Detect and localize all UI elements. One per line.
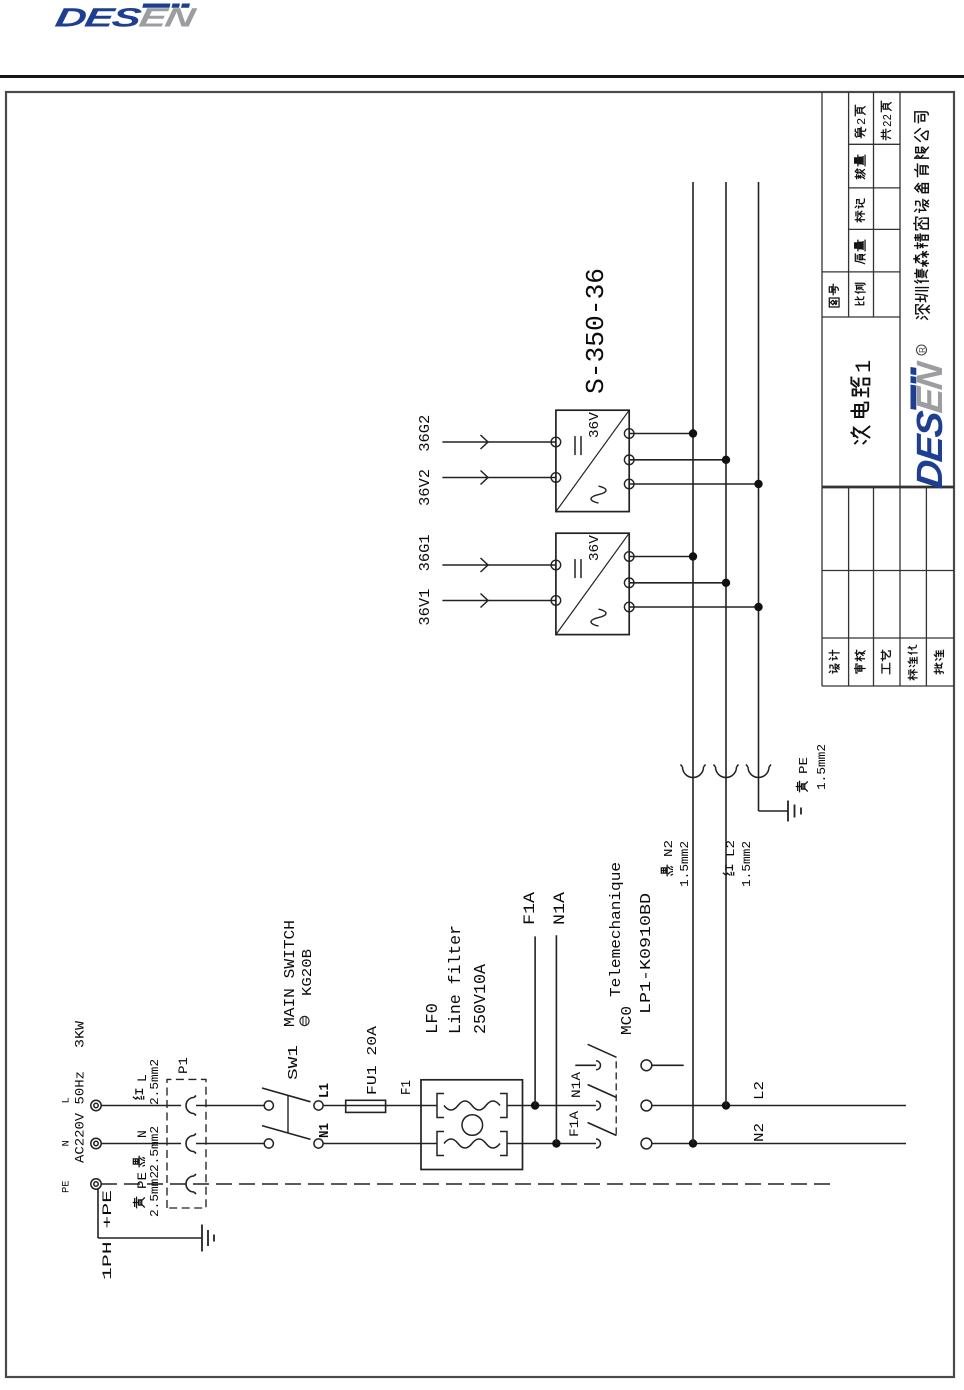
junction dot [689,552,697,560]
power supply U2 S-350-36 box [556,410,629,511]
wire L [196,1105,264,1107]
svg-text:S-350-36: S-350-36 [581,268,611,394]
PE bus elbow [759,810,789,812]
svg-text:DES: DES [909,408,950,490]
svg-text:PE: PE [797,757,811,774]
output chevron [481,435,489,449]
svg-text:2: 2 [855,118,869,125]
svg-text:1.5mm2: 1.5mm2 [679,841,692,887]
svg-text:FU1 20A: FU1 20A [365,1025,381,1095]
svg-text:SW1: SW1 [286,1045,302,1080]
wire PE (dashed) [101,1183,830,1185]
svg-text:L1: L1 [317,1083,333,1098]
svg-text:Telemechanique: Telemechanique [608,862,625,997]
filter winding [437,1094,444,1118]
output wire [442,477,556,479]
title 次电路1 [851,427,869,444]
svg-text:250V10A: 250V10A [471,964,490,1034]
svg-text:PE: PE [61,1180,73,1193]
connector P1 dashed box [167,1079,206,1208]
terminal L [91,1100,101,1110]
svg-text:36V1: 36V1 [417,589,434,626]
wire stub in filter [421,1105,437,1107]
svg-text:2.5mm2: 2.5mm2 [149,1171,162,1217]
svg-text:AC220V 50Hz: AC220V 50Hz [73,1071,88,1163]
label black N2 1.5mm2 [661,865,672,875]
tap wire [629,606,758,608]
terminal PE [91,1179,101,1189]
psu AC squiggle [591,609,606,626]
psu input/output terminal [551,596,561,606]
contactor fixed contact [596,1101,601,1110]
svg-text:N1A: N1A [551,892,569,925]
contactor contact circle [641,1138,652,1149]
contactor fixed contact [596,1061,601,1070]
psu terminal [624,479,634,489]
svg-text:Line filter: Line filter [446,925,465,1034]
svg-text:L2: L2 [724,840,738,857]
contactor unused pole out stub [652,1064,684,1066]
psu terminal [624,552,634,562]
label red L2 1.5mm2 [723,865,733,875]
label 比例 [855,297,863,305]
contactor blade [588,1085,617,1098]
node N1A junction [552,1139,560,1147]
title block [821,92,823,686]
svg-text:DES: DES [53,3,144,33]
psu input/output terminal [551,437,561,447]
line filter LF0 box [421,1080,523,1170]
svg-text:F1A: F1A [567,1111,582,1137]
psu DC bars [574,559,576,578]
label black N 2.5mm2 [133,1156,144,1166]
power supply U1 S-350-36 box [556,533,629,634]
switch linkage [287,1096,289,1134]
output chevron [481,594,489,608]
tap wire [629,582,726,584]
svg-text:MC0: MC0 [619,1006,636,1035]
label red L 2.5mm2 [133,1089,143,1099]
svg-text:LP1-K0910BD: LP1-K0910BD [638,893,655,1014]
wire PE to earth [97,1189,99,1238]
psu terminal [624,429,634,439]
svg-text:36G2: 36G2 [417,415,434,452]
wire L [386,1105,421,1107]
psu diagonal [556,410,629,511]
psu terminal [624,455,634,465]
svg-text:2.5mm2: 2.5mm2 [149,1126,162,1172]
ground (input earth) [201,1225,203,1252]
contactor contact circle [641,1060,652,1071]
svg-text:36V: 36V [588,534,603,561]
svg-text:N2: N2 [752,1123,768,1142]
header rule [0,75,964,78]
label 共22页 [881,129,890,139]
svg-text:N2: N2 [662,840,676,857]
psu input/output terminal [551,560,561,570]
svg-text:N1A: N1A [569,1072,584,1098]
label yellow PE 1.5mm2 [796,781,807,791]
cable cup symbol [681,765,706,778]
svg-text:L: L [61,1097,73,1103]
junction dot [722,579,730,587]
label 设计 [829,664,839,673]
output chevron [481,471,489,485]
svg-text:3KW: 3KW [73,1021,88,1048]
DESEN logo (title block) [909,359,950,490]
label 质量 [855,254,865,264]
svg-text:1PH +PE: 1PH +PE [101,1190,115,1280]
wire L [323,1105,346,1107]
label 图号 [829,298,839,307]
svg-text:F1A: F1A [521,892,539,925]
contactor fixed contact [596,1139,601,1148]
output wire [442,441,556,443]
psu diagonal [556,533,629,634]
svg-text:36G1: 36G1 [417,534,434,571]
wire stub in filter [421,1143,437,1145]
tap wire [629,483,758,485]
tap wire [629,556,693,558]
filter circle [462,1115,483,1136]
wire N [196,1143,264,1145]
connector arc [186,1134,196,1154]
svg-text:N1: N1 [317,1123,333,1138]
svg-text:1: 1 [852,360,877,373]
label KG20B [300,1016,309,1025]
wire L down [652,1105,906,1107]
junction dot [754,603,762,611]
psu input/output terminal [551,473,561,483]
DESEN logo (page header) [53,3,199,33]
svg-text:L: L [135,1074,150,1082]
svg-text:N: N [61,1140,73,1146]
svg-text:R: R [918,347,927,353]
svg-text:22: 22 [881,114,895,127]
junction dot [754,480,762,488]
label 批准 [934,663,943,673]
wire N [523,1143,597,1145]
connector arc [186,1174,196,1194]
wire L [523,1105,597,1107]
node F1A junction [531,1101,539,1109]
contactor blade [588,1044,617,1057]
cable cup symbol [714,765,739,778]
connector arc [186,1096,196,1116]
psu DC bars [574,436,576,455]
bus N2 [692,182,694,1144]
wire N [101,1143,181,1145]
label 工艺 [882,663,890,673]
label yellow PE 2.5mm2 [133,1197,144,1207]
cable cup symbol [746,765,771,778]
svg-text:2.5mm2: 2.5mm2 [149,1059,162,1105]
svg-text:F1: F1 [399,1080,415,1095]
output chevron [481,558,489,572]
switch SW1 pole L [264,1101,273,1110]
wire F1A [534,936,536,1105]
label 标记 [855,211,864,221]
label 标准化 [908,670,917,680]
output wire [442,564,556,566]
contactor contact circle [641,1100,652,1111]
registered mark [917,345,927,355]
label 审核 [855,664,865,673]
svg-text:N: N [135,1130,150,1138]
switch SW1 pole N [264,1139,273,1148]
svg-text:1.5mm2: 1.5mm2 [816,744,829,790]
tap wire [629,459,726,461]
terminal N [91,1138,101,1148]
bus L2 [725,182,727,1106]
wire N1A [555,935,557,1143]
node L2 junction [722,1101,730,1109]
svg-text:PE: PE [135,1172,150,1189]
wire N [323,1143,421,1145]
label 第2页 [855,127,865,137]
psu AC squiggle [591,486,606,503]
wire N down [652,1143,906,1145]
filter winding [437,1132,444,1156]
svg-text:L2: L2 [752,1081,768,1100]
junction dot [722,456,730,464]
tap wire [629,433,693,435]
bus PE [758,182,760,811]
svg-text:MAIN SWITCH: MAIN SWITCH [283,920,299,1027]
contactor MC0 unused pole stub [575,1064,596,1066]
contactor linkage dashed [615,1058,617,1135]
svg-text:KG20B: KG20B [300,949,316,996]
wire L [101,1105,181,1107]
psu terminal [624,578,634,588]
svg-text:P1: P1 [176,1057,191,1074]
node N2 junction [689,1139,697,1147]
svg-text:LF0: LF0 [423,1003,442,1034]
svg-text:36V2: 36V2 [417,469,434,506]
output wire [442,600,556,602]
company name [916,305,930,319]
contactor blade [588,1123,617,1136]
svg-text:1.5mm2: 1.5mm2 [741,841,754,887]
junction dot [689,429,697,437]
svg-text:36V: 36V [588,411,603,438]
psu terminal [624,602,634,612]
fuse FU1 [346,1100,386,1112]
ground (PE bus) [787,801,789,822]
label 数量 [855,169,865,179]
